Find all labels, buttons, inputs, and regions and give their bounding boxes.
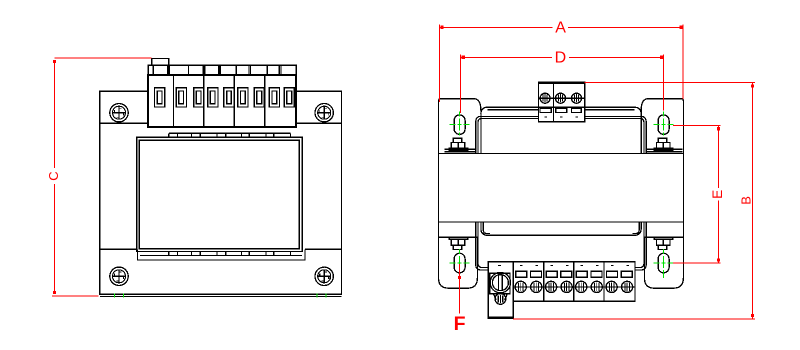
coil winding outer (476, 116, 646, 270)
dimension A (439, 24, 683, 102)
core band (439, 154, 684, 223)
terminal body (148, 75, 296, 127)
svg-text:C: C (46, 171, 61, 180)
clamp symbol bottom-left (449, 238, 468, 250)
bottom step (138, 249, 306, 260)
dimension B (513, 82, 755, 319)
clamp symbol top-left (449, 138, 468, 150)
terminal slots (155, 88, 295, 107)
screw bottom-left (110, 267, 128, 285)
coil window outer (137, 137, 303, 251)
green crosshair bottom-right (654, 249, 674, 278)
coil flange outline (481, 107, 641, 235)
dimension E (673, 126, 721, 263)
clamp symbol bottom-right (654, 238, 673, 250)
bottom-left foot (439, 222, 478, 288)
coil top tab strip (169, 132, 291, 134)
slot oval bottom-right (658, 253, 669, 272)
slot oval bottom-left (454, 253, 465, 272)
screw bottom-right (315, 267, 333, 285)
green center ticks bottom edge (115, 294, 327, 298)
svg-text:A: A (555, 19, 566, 36)
screw top-left (110, 104, 128, 122)
terminal group dividers (173, 75, 264, 127)
green crosshair top-right (654, 112, 674, 136)
top terminal block (539, 82, 585, 122)
base line (100, 295, 342, 297)
dimension D (461, 55, 664, 114)
svg-text:D: D (555, 49, 567, 66)
svg-text:F: F (454, 313, 466, 335)
top flange bottom line (100, 122, 342, 124)
flange edge line through block (539, 106, 585, 108)
bottom flange top line (100, 248, 342, 250)
top-left foot (439, 99, 481, 154)
bottom-right foot (645, 222, 684, 288)
coil winding inner (478, 118, 644, 267)
bottom terminal block fuse section (488, 262, 513, 319)
clamp symbol top-right (654, 138, 673, 150)
svg-text:B: B (738, 196, 753, 205)
green crosshair bottom-left (450, 249, 470, 278)
bottom terminal block main row (513, 262, 635, 302)
terminal top strip (148, 65, 296, 75)
slot oval top-right (658, 115, 669, 134)
dimension F (459, 264, 461, 313)
strip dividers (153, 65, 281, 75)
coil window inner (139, 140, 299, 249)
body outline (100, 91, 342, 294)
slot oval top-left (454, 115, 465, 134)
coil flange second line top (488, 109, 635, 111)
bottom flange inner edge line (483, 222, 639, 234)
green crosshair top-left (450, 112, 470, 136)
top-right foot (641, 99, 683, 154)
screw top-right (315, 104, 333, 122)
terminal tab (152, 58, 169, 65)
dimension C (52, 58, 152, 296)
svg-text:E: E (710, 190, 725, 199)
coil bottom tab strip (140, 254, 302, 256)
